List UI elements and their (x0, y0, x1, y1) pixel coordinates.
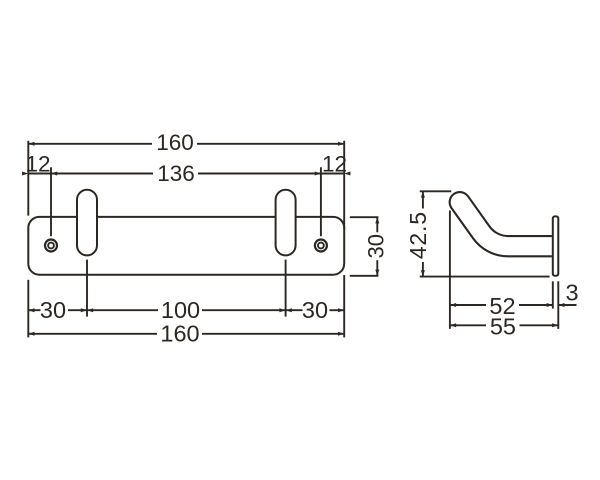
svg-text:30: 30 (363, 234, 388, 258)
dimension 42.5 (hook height) (405, 191, 431, 276)
svg-text:3: 3 (565, 280, 578, 306)
svg-text:136: 136 (157, 161, 195, 186)
dimension 52 (450, 293, 553, 319)
dimension 136 (51, 161, 321, 186)
dimension 12 (left) (22, 152, 51, 177)
extension line: plate top (30 dim, side) (350, 216, 379, 218)
dimension 160 (bottom) (28, 320, 344, 346)
svg-text:12: 12 (322, 152, 347, 177)
extension line: plate bottom (30 dim, side) (350, 275, 379, 277)
dimension 100 (bottom) (87, 297, 286, 323)
dimension 30 (bottom right) (286, 297, 345, 323)
extension line: right hole center (320, 167, 322, 236)
dimension 3 (plate thickness) (558, 280, 578, 307)
svg-text:55: 55 (490, 314, 516, 340)
extension line: right slot center (285, 260, 287, 317)
screw hole right (315, 240, 327, 252)
extension line: plate front face (552, 281, 554, 308)
svg-text:30: 30 (302, 297, 328, 323)
hook slot left (front view of hook) (77, 190, 97, 256)
extension line: plate left edge (top dims) (27, 141, 29, 216)
wall plate (front view) (28, 217, 344, 275)
hook arm (side view) (460, 202, 566, 260)
dimension 55 (450, 314, 558, 340)
dimension 12 (right) (321, 152, 351, 177)
extension line: plate bottom (42.5 dim) (420, 276, 550, 278)
wall plate (side view, edge-on) (553, 216, 559, 275)
extension line: plate back face (557, 281, 559, 329)
dimension 30 (bottom left) (28, 297, 87, 323)
hook slot right (front view of hook) (276, 190, 296, 256)
extension line: plate right edge (bottom dims) (343, 275, 345, 337)
dimension 160 (top) (28, 130, 344, 155)
svg-text:30: 30 (40, 297, 66, 323)
svg-text:12: 12 (25, 152, 50, 177)
extension line: left hole center (50, 167, 52, 236)
extension line: plate left edge (bottom dims) (27, 280, 29, 338)
svg-text:42.5: 42.5 (405, 211, 431, 259)
screw hole left (45, 240, 57, 252)
svg-text:160: 160 (160, 320, 199, 346)
svg-text:100: 100 (161, 297, 200, 323)
extension line: hook front edge (52/55 dims) (449, 211, 451, 329)
extension line: left slot center (86, 260, 88, 317)
extension line: plate right edge (top dims) (343, 141, 345, 230)
dimension 30 (plate height, side view) (363, 217, 388, 276)
svg-text:160: 160 (156, 130, 194, 155)
extension line: hook top (42.5 dim) (420, 190, 451, 192)
